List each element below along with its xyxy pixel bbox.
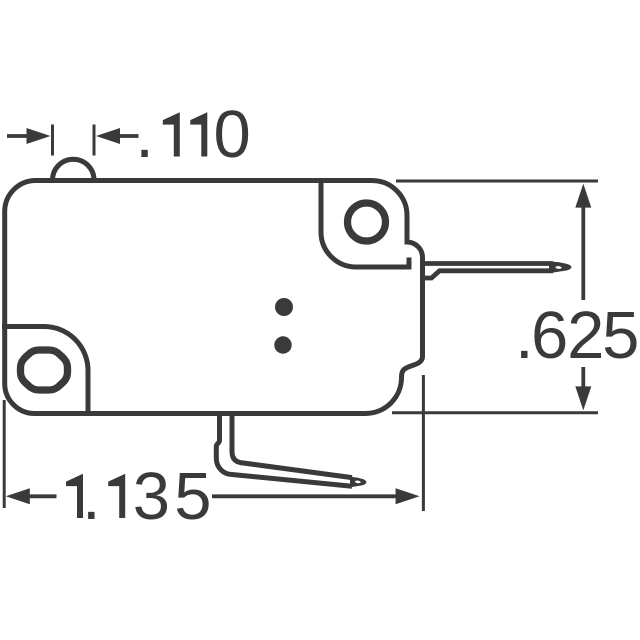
svg-text:.: . (135, 97, 154, 172)
dimension .625 bottom arrow (581, 367, 585, 388)
right terminal bottom edge (422, 271, 553, 278)
right terminal tip (549, 261, 572, 273)
dimension label .625 (515, 298, 639, 373)
bottom terminal outer edge (216, 412, 352, 486)
svg-text:0: 0 (214, 97, 251, 172)
svg-text:5: 5 (602, 298, 639, 373)
right terminal top edge (422, 261, 553, 266)
dimension 1.135 right extension line (422, 375, 425, 511)
dimension 1.135 left extension line (3, 400, 6, 508)
svg-text:2: 2 (567, 298, 604, 373)
svg-text:3: 3 (133, 459, 170, 534)
dimension .110 extension tick right (93, 125, 96, 156)
svg-text:.: . (82, 459, 101, 534)
dimension .625 top extension line (396, 180, 598, 183)
dimension label 1.135 (66, 459, 211, 534)
plunger button (53, 159, 95, 180)
dimension .110 left arrow (7, 134, 28, 138)
dimension 1.135 left arrow (28, 494, 57, 498)
hex mounting hole (21, 350, 68, 390)
dimension .625 bottom extension line (392, 411, 598, 414)
svg-text:5: 5 (174, 459, 211, 534)
actuation dot lower (274, 336, 291, 353)
round mounting hole (348, 203, 386, 241)
top-right mounting boss pocket (321, 179, 409, 267)
switch body outline (5, 180, 423, 413)
bottom terminal tip (350, 477, 366, 488)
dimension .110 right arrow (119, 134, 139, 138)
bottom terminal inner edge (232, 412, 352, 478)
actuation dot upper (275, 298, 293, 316)
dimension label .110 (135, 97, 251, 172)
bottom-left mounting boss pocket (2, 327, 88, 414)
dimension .110 extension tick left (51, 125, 54, 156)
dimension .625 top arrow (581, 206, 585, 300)
dimension 1.135 right arrow (212, 494, 396, 498)
svg-text:6: 6 (531, 298, 568, 373)
